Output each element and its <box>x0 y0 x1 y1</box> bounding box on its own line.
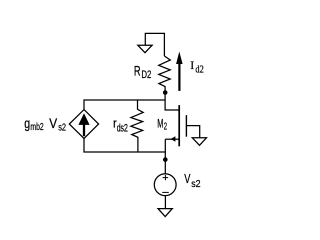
svg-text:M: M <box>157 117 163 131</box>
svg-text:I: I <box>190 60 194 72</box>
svg-text:2: 2 <box>164 122 168 133</box>
svg-text:s2: s2 <box>191 179 201 190</box>
svg-text:V: V <box>49 116 58 131</box>
svg-text:R: R <box>134 62 141 78</box>
svg-text:g: g <box>24 116 30 131</box>
svg-text:ds2: ds2 <box>117 122 128 134</box>
svg-text:D2: D2 <box>141 69 151 81</box>
svg-text:mb2: mb2 <box>30 121 43 133</box>
svg-text:V: V <box>184 171 191 186</box>
svg-text:s2: s2 <box>58 122 66 134</box>
svg-text:d2: d2 <box>195 63 203 75</box>
